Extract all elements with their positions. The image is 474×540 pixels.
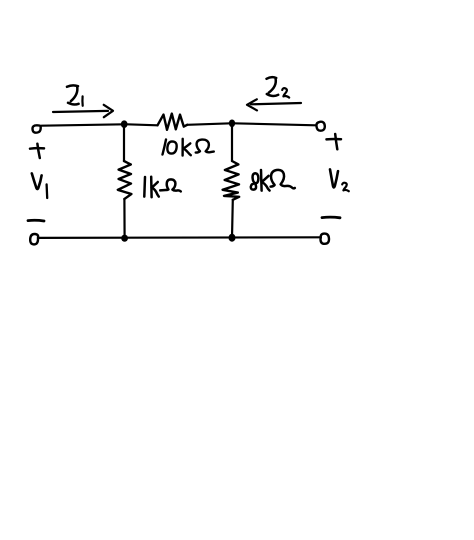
terminal port2 top <box>316 122 324 131</box>
wire resistor 8k to node D <box>231 200 234 238</box>
node B junction dot <box>229 120 235 128</box>
polarity minus port1 <box>28 219 44 223</box>
wire node A down to resistor 1k <box>123 124 125 161</box>
label I2 <box>267 77 290 97</box>
wire node B down to resistor 8k <box>231 123 233 161</box>
polarity plus port1 <box>30 144 44 158</box>
arrow I2 <box>247 99 301 110</box>
resistor 1kΩ (left shunt, vertical zigzag) <box>118 161 132 199</box>
label I1 <box>67 85 83 105</box>
node A junction dot <box>121 120 128 128</box>
polarity minus port2 <box>322 216 340 219</box>
wire resistor 1k to node C <box>123 199 125 238</box>
label V2 <box>330 169 349 191</box>
arrow I1 <box>53 105 113 117</box>
wire top-right <box>234 123 317 125</box>
label 1kΩ <box>144 177 181 197</box>
wire top-left <box>42 124 125 125</box>
wire bottom <box>39 236 321 239</box>
label 10kΩ <box>163 139 214 156</box>
wire resistor 10k to node B <box>187 123 231 125</box>
terminal port1 top <box>32 125 40 132</box>
terminal port1 bottom <box>30 234 38 244</box>
terminal port2 bottom <box>321 234 330 244</box>
wire node A to resistor 10k <box>124 124 158 125</box>
node C junction dot <box>121 235 128 242</box>
polarity plus port2 <box>327 134 342 149</box>
label 8kΩ <box>251 170 295 191</box>
label V1 <box>32 173 47 198</box>
node D junction dot <box>229 234 236 242</box>
resistor 10kΩ (series, horizontal zigzag) <box>158 114 188 130</box>
resistor 8kΩ (right shunt, vertical zigzag) <box>223 161 240 200</box>
